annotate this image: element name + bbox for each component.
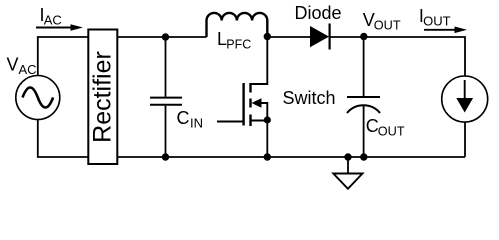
node (inductor / drain / diode junction) bbox=[264, 33, 271, 40]
diode D1 bbox=[311, 24, 330, 50]
svg-text:OUT: OUT bbox=[378, 124, 405, 138]
ground bbox=[333, 157, 362, 189]
wire (AC source bottom to rectifier) bbox=[38, 120, 89, 158]
rectifier block bbox=[88, 30, 117, 165]
svg-text:AC: AC bbox=[44, 13, 62, 28]
svg-text:Diode: Diode bbox=[295, 3, 342, 23]
node (MOSFET source junction) bbox=[264, 116, 271, 123]
node (C_IN top junction) bbox=[162, 33, 169, 40]
wire (AC source top to rectifier) bbox=[38, 37, 89, 76]
capacitor C_IN bbox=[150, 37, 182, 157]
node (MOSFET source to bottom rail) bbox=[264, 153, 271, 160]
wire (junction to diode anode) bbox=[267, 36, 310, 38]
wire (current source bottom to bottom rail) bbox=[464, 122, 466, 157]
capacitor C_OUT (polarized) bbox=[347, 37, 380, 157]
current source (load) bbox=[442, 76, 488, 122]
inductor L_PFC bbox=[207, 13, 268, 37]
wire (V_OUT node to current source top) bbox=[364, 37, 465, 76]
label C_OUT bbox=[366, 116, 405, 138]
label I_OUT bbox=[419, 6, 451, 29]
svg-text:Rectifier: Rectifier bbox=[88, 51, 116, 143]
svg-text:OUT: OUT bbox=[423, 13, 451, 28]
wire (diode cathode to V_OUT node) bbox=[330, 36, 364, 38]
label V_OUT bbox=[363, 10, 401, 32]
wire (bottom rail) bbox=[117, 156, 465, 158]
AC source V_AC bbox=[16, 76, 60, 120]
wire (rectifier to inductor, top) bbox=[117, 36, 206, 38]
label I_AC bbox=[40, 5, 62, 28]
label C_IN bbox=[177, 108, 204, 130]
current arrow I_OUT bbox=[424, 27, 467, 34]
svg-text:IN: IN bbox=[190, 115, 203, 130]
label V_AC bbox=[7, 54, 37, 77]
svg-text:PFC: PFC bbox=[226, 37, 251, 51]
svg-text:OUT: OUT bbox=[374, 18, 401, 32]
current arrow I_AC bbox=[36, 24, 83, 31]
transistor Q1 (switch MOSFET) bbox=[217, 37, 267, 158]
svg-text:Switch: Switch bbox=[283, 88, 336, 108]
svg-text:AC: AC bbox=[19, 62, 37, 77]
svg-text:C: C bbox=[177, 108, 190, 128]
svg-text:V: V bbox=[7, 54, 19, 74]
label L_PFC bbox=[217, 29, 251, 51]
node (C_IN bottom junction) bbox=[162, 153, 169, 160]
node V_OUT bbox=[360, 33, 367, 40]
node (ground junction) bbox=[344, 153, 351, 160]
node (C_OUT bottom junction) bbox=[360, 153, 367, 160]
